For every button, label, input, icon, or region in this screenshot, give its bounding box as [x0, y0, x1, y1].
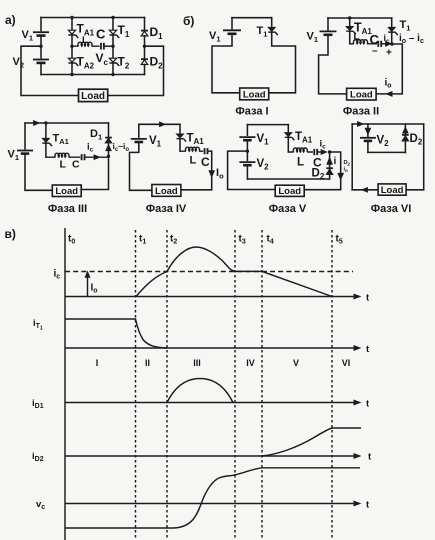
load box a [79, 89, 108, 102]
wire bottom rail phase VI [352, 189, 424, 191]
svg-text:Load: Load [350, 90, 373, 101]
current arrow ic on D1 branch [87, 142, 111, 154]
wire right down phase III [81, 156, 108, 189]
svg-text:–: – [372, 46, 378, 57]
wire mid rail phase VI [368, 151, 406, 153]
svg-text:Фаза IV: Фаза IV [146, 203, 187, 215]
node top T1 [111, 16, 114, 19]
svg-text:IV: IV [246, 358, 255, 368]
current arrow Io phase IV [209, 167, 224, 181]
capacitor C [96, 27, 113, 50]
curve iD1 [167, 379, 233, 403]
battery V1 phase V [239, 125, 269, 152]
svg-text:Load: Load [278, 186, 301, 197]
current arrow top phase III [34, 121, 39, 125]
inductor L [72, 35, 100, 46]
node C-D2 phase V [328, 150, 331, 153]
load box phase I [240, 88, 269, 100]
inductor L phase V [288, 148, 313, 169]
wire right loop phase V [304, 152, 341, 190]
wire top rail phase VI [352, 123, 424, 125]
curve iD2 [262, 428, 361, 456]
battery V1 [22, 18, 50, 47]
thyristor T1 phase II [388, 18, 410, 44]
battery V2 phase V [239, 151, 269, 179]
SECTION-B [183, 14, 424, 118]
capacitor C phase III [72, 154, 109, 170]
battery V1 phase II [307, 18, 347, 94]
svg-text:L: L [190, 155, 197, 167]
current arrow top phase IV [160, 122, 165, 126]
current arrow top phase VI [358, 122, 363, 126]
thyristor T1 [109, 18, 129, 47]
thyristor TA1 phase II [346, 18, 372, 44]
svg-text:VI: VI [342, 358, 351, 368]
axis iT1 [65, 344, 370, 355]
node mid D [143, 45, 146, 48]
wire left vertical phase VI [351, 124, 353, 190]
node LC-D1 phase III [107, 155, 110, 158]
thyristor TA2 [68, 46, 94, 74]
svg-text:Load: Load [155, 186, 178, 197]
wire right vertical phase VI [423, 124, 425, 190]
thyristor T1 phase I [257, 18, 296, 93]
arrow I0 [85, 272, 97, 296]
load box phase II [347, 88, 377, 100]
thyristor TA1 phase IV [177, 124, 205, 151]
thyristor TA1 phase III [42, 123, 68, 157]
battery V1 phase III [8, 123, 53, 190]
inductor L phase IV [180, 147, 203, 166]
svg-text:Load: Load [243, 89, 266, 100]
gridline t1 [135, 230, 137, 538]
node TA1 top phase II [348, 16, 351, 19]
gridline t2 [166, 230, 168, 538]
SECTION-WAVE [5, 227, 373, 540]
wire outer left phase V [228, 151, 276, 189]
current arrow io phase II [385, 78, 393, 97]
node C-T1 phase II [390, 42, 393, 45]
wire right loop phase II [376, 44, 402, 94]
svg-text:V: V [293, 358, 299, 368]
node V-mid [39, 45, 42, 48]
svg-text:L: L [297, 157, 304, 169]
battery V1 phase I [209, 18, 241, 93]
battery V2 [13, 46, 50, 74]
svg-text:L: L [60, 159, 67, 171]
svg-text:Load: Load [55, 186, 78, 197]
wire top rail [41, 17, 145, 19]
capacitor C phase V [313, 149, 322, 170]
current arrow bottom phase VI [362, 188, 367, 192]
svg-text:C: C [201, 155, 210, 169]
svg-text:Фаза III: Фаза III [48, 203, 87, 215]
node top TA1 [70, 16, 73, 19]
wire top rail phase II [328, 17, 392, 19]
svg-text:Фаза V: Фаза V [269, 203, 307, 215]
capacitor C phase IV [201, 148, 212, 169]
load box phase V [275, 185, 304, 197]
battery V1 phase IV [130, 124, 162, 190]
svg-text:Фаза I: Фаза I [235, 106, 268, 118]
wire right down phase IV [181, 151, 212, 190]
dashed level line ic [65, 271, 353, 273]
SECTION-A [5, 13, 164, 102]
gridline t4 [261, 230, 263, 538]
node mid T1 [111, 45, 114, 48]
load box phase III [52, 185, 81, 197]
wire outer right [108, 46, 164, 95]
diode D1 phase III [90, 123, 112, 156]
svg-text:+: + [386, 48, 392, 59]
load box phase VI [378, 184, 406, 196]
wire top rail phase IV [139, 123, 180, 125]
thyristor TA1 [68, 18, 94, 47]
gridline t5 [331, 230, 333, 538]
svg-text:io: io [344, 167, 349, 174]
svg-text:L: L [354, 32, 360, 43]
node V-mid phase V [246, 149, 249, 152]
current arrow down right phase V [338, 173, 343, 179]
axis vc [65, 500, 370, 511]
node TA1 top phase III [44, 121, 47, 124]
gridline t3 [234, 230, 236, 538]
SECTION-ROW2 [8, 121, 424, 215]
svg-text:I: I [96, 358, 99, 368]
svg-text:Фаза II: Фаза II [343, 106, 379, 118]
wire outer left [21, 46, 79, 95]
axis ic [65, 293, 370, 304]
wire bottom bridge rail [41, 74, 145, 76]
node bottom T2 [111, 73, 114, 76]
battery V2 phase VI [360, 124, 389, 152]
wire top rail phase I [232, 17, 272, 19]
svg-text:а): а) [5, 13, 16, 27]
svg-text:C: C [96, 27, 106, 42]
load box phase IV [152, 185, 181, 197]
svg-text:в): в) [5, 227, 16, 241]
axis iD2 [65, 452, 372, 463]
svg-text:Load: Load [81, 91, 105, 102]
node bottom TA2 [70, 73, 73, 76]
wire top rail phase V [247, 124, 288, 126]
capacitor C phase II [370, 32, 393, 59]
diode D2 [141, 46, 163, 74]
axis vertical [64, 228, 66, 540]
current arrow i on D2 branch phase V [327, 152, 337, 179]
svg-text:б): б) [183, 14, 194, 28]
current arrow LC phase III [94, 155, 99, 159]
axis iD1 [65, 399, 370, 410]
diode D2 phase V [312, 168, 333, 182]
thyristor TA1 phase V [285, 125, 313, 152]
inductor L phase III [46, 153, 80, 170]
svg-text:L: L [82, 35, 88, 46]
svg-text:II: II [145, 358, 150, 368]
svg-text:i: i [334, 156, 337, 167]
svg-text:C: C [72, 159, 80, 171]
wire top rail phase III [25, 122, 109, 124]
node mid TA [70, 45, 73, 48]
diode D1 [141, 18, 163, 47]
svg-text:Фаза VI: Фаза VI [371, 203, 412, 215]
current arrow ic phase V [320, 139, 327, 155]
curve ic [136, 247, 332, 297]
svg-text:III: III [193, 358, 201, 368]
thyristor T2 [109, 46, 129, 74]
curve iT1 [65, 319, 167, 348]
diode D2 phase VI [402, 124, 423, 152]
wire bridge bottom phase V [247, 178, 329, 180]
curve vc [65, 468, 360, 528]
svg-text:Load: Load [381, 185, 404, 196]
current arrow ic phase II [384, 33, 392, 46]
inductor L phase II [350, 32, 377, 44]
